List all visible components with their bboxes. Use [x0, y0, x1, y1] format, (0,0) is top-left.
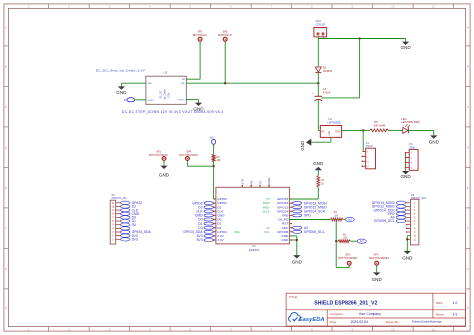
svg-text:C: C: [467, 105, 470, 109]
svg-text:TITLE:: TITLE:: [289, 295, 298, 299]
svg-text:B: B: [467, 64, 469, 68]
svg-text:SP1: SP1: [156, 149, 161, 153]
svg-text:1/1: 1/1: [453, 313, 458, 317]
svg-text:EN: EN: [182, 79, 185, 81]
svg-text:E: E: [5, 186, 7, 190]
wire D3 to C4: [317, 73, 319, 97]
svg-text:LED: LED: [401, 117, 406, 121]
svg-text:OUT: OUT: [335, 131, 341, 134]
junction SP4 branch: [212, 165, 214, 167]
ESP right net flags: [292, 202, 301, 205]
svg-text:MOSI: MOSI: [263, 201, 270, 205]
ground at P4: [402, 171, 409, 174]
junction SP6 / 12V wire: [224, 82, 226, 84]
wire SP6 drop: [224, 41, 226, 83]
svg-text:D: D: [467, 145, 470, 149]
svg-text:VIN+: VIN+: [147, 83, 153, 85]
wire ESP CH_PD to R1: [289, 219, 330, 221]
svg-text:DC_DC: DC_DC: [160, 90, 163, 99]
svg-text:SP5: SP5: [197, 29, 202, 33]
svg-text:1N4004: 1N4004: [323, 69, 333, 73]
svg-text:G: G: [467, 267, 470, 271]
svg-text:Date:: Date:: [330, 320, 337, 324]
svg-text:BUTTON LD: BUTTON LD: [218, 33, 232, 37]
wire 3v3 flag to U3 VOUT+: [135, 99, 146, 101]
svg-text:5VCC: 5VCC: [366, 144, 373, 148]
svg-text:G: G: [5, 267, 8, 271]
svg-text:GND: GND: [116, 90, 127, 95]
junction 12V wire / D3-C4 node: [317, 82, 319, 84]
svg-text:E: E: [467, 186, 469, 190]
junction CN1 gnd rail branch: [358, 37, 360, 39]
ground at CN1: [402, 42, 409, 45]
wire R1 to 3v3 flag: [343, 219, 345, 221]
wire ESP GND pins: [289, 235, 296, 237]
net flag 3v3 at R2: [357, 239, 366, 243]
wire SP4 to GPIO0 line: [186, 161, 188, 167]
junction R2 branch: [335, 240, 337, 242]
svg-text:LED 5MM RED: LED 5MM RED: [401, 120, 419, 124]
svg-text:SCL: SCL: [264, 230, 270, 234]
svg-text:9: 9: [352, 327, 354, 331]
ground at SP3: [373, 272, 380, 275]
svg-text:RobertoCarlosAlvarenga: RobertoCarlosAlvarenga: [412, 320, 442, 324]
svg-text:SCLK: SCLK: [263, 209, 270, 213]
svg-text:10: 10: [391, 327, 395, 331]
svg-text:D3: D3: [323, 65, 327, 69]
diode D3 1N4004: [315, 67, 321, 72]
svg-text:3V3: 3V3: [132, 237, 138, 241]
wire U3 VIN- net to 12V node: [186, 82, 318, 84]
svg-text:1k: 1k: [321, 182, 324, 185]
wire U3 EN to SP5: [186, 78, 200, 80]
EasyEDA logo: [289, 313, 301, 322]
wire U3 VOUT- to GND: [186, 99, 198, 101]
resistor R1 10k: [330, 218, 343, 221]
ground at U4 (rotated left): [306, 139, 311, 146]
svg-text:C: C: [5, 105, 8, 109]
svg-text:GND: GND: [372, 277, 383, 282]
svg-text:D3: D3: [132, 223, 136, 227]
svg-text:A: A: [5, 25, 7, 29]
svg-text:A0: A0: [266, 226, 270, 230]
junction ESP gnd wires: [296, 239, 298, 241]
svg-text:P4: P4: [409, 142, 413, 146]
svg-text:Sheet:: Sheet:: [436, 313, 445, 317]
wire U3 VIN- to GND left: [121, 82, 145, 84]
svg-text:CDS-2P: CDS-2P: [316, 22, 326, 26]
svg-text:GND: GND: [402, 256, 413, 261]
svg-text:H: H: [467, 306, 469, 310]
svg-text:U4: U4: [328, 117, 332, 121]
wire LED to GND: [408, 129, 433, 131]
wire CN1 pin2 to GND rail: [322, 37, 324, 39]
svg-text:CN1: CN1: [316, 19, 322, 23]
wire reset vertical: [335, 220, 337, 268]
svg-text:BUTTON PROG: BUTTON PROG: [180, 153, 199, 157]
wire U4 OUT to node: [342, 129, 370, 131]
wire R5 to LED: [389, 129, 403, 131]
ground at U3 VIN-: [118, 86, 125, 89]
svg-text:1.0: 1.0: [452, 301, 457, 305]
svg-text:GND: GND: [400, 174, 411, 179]
svg-text:GND: GND: [409, 145, 415, 149]
ground at ESP: [293, 255, 300, 258]
svg-text:5: 5: [190, 327, 192, 331]
net flag 3v3 at R1: [345, 217, 354, 221]
svg-text:7: 7: [271, 327, 273, 331]
svg-text:1: 1: [28, 327, 30, 331]
svg-text:2: 2: [68, 327, 70, 331]
wire R2 to 3v3 flag: [336, 240, 338, 242]
svg-text:2020-02-04: 2020-02-04: [351, 320, 368, 324]
svg-text:TX: TX: [258, 181, 262, 185]
svg-text:6: 6: [230, 327, 232, 331]
wire ESP GPIO15 to R7: [289, 198, 318, 200]
capacitor C4 470uF: [315, 95, 323, 97]
wire 3v3 flag to R6: [213, 144, 215, 154]
svg-text:3: 3: [109, 327, 111, 331]
svg-text:3.3V: 3.3V: [168, 93, 171, 98]
svg-text:11: 11: [432, 327, 435, 331]
svg-text:Your Company: Your Company: [359, 312, 382, 316]
wire P4 pins to ground: [405, 153, 407, 171]
ESP left net flags: [204, 202, 213, 205]
svg-text:H: H: [5, 306, 7, 310]
junction P3 gnd: [406, 238, 408, 240]
wire SP1 to ground: [163, 161, 165, 166]
ESP top pins 3.3V RX TX GND: [241, 186, 243, 187]
svg-text:VIN-: VIN-: [181, 83, 186, 85]
svg-text:EasyEDA: EasyEDA: [299, 317, 325, 323]
IC U1 ESP201 module: [216, 187, 290, 244]
svg-text:BUTTON RESET: BUTTON RESET: [370, 256, 390, 260]
svg-text:GPIO05_SCL: GPIO05_SCL: [304, 230, 325, 234]
svg-text:GND: GND: [159, 172, 170, 177]
module U3 DC-DC step-down: [146, 76, 186, 104]
svg-text:D: D: [5, 145, 8, 149]
svg-text:10: 10: [391, 5, 395, 9]
svg-text:GND: GND: [193, 106, 204, 111]
svg-text:BUTTON LD: BUTTON LD: [193, 33, 207, 37]
svg-text:GPIO05_SCL: GPIO05_SCL: [374, 219, 395, 223]
svg-text:Drawn By:: Drawn By:: [386, 320, 400, 324]
svg-text:MISO: MISO: [263, 205, 270, 209]
svg-text:SP4: SP4: [186, 149, 191, 153]
svg-text:GND: GND: [400, 45, 411, 50]
svg-text:A: A: [467, 25, 469, 29]
svg-text:8: 8: [311, 327, 313, 331]
resistor R6 10K: [212, 154, 215, 162]
svg-text:VOUT+: VOUT+: [147, 100, 155, 102]
ground at P3: [404, 251, 411, 254]
wire SP3 to ground: [376, 265, 378, 272]
svg-text:DC-DC STEP_DOWN 12V IN 3V3 VOU: DC-DC STEP_DOWN 12V IN 3V3 VOUT 600mA S0…: [122, 110, 223, 114]
svg-text:R5: R5: [374, 120, 378, 124]
svg-text:VOUT-: VOUT-: [178, 100, 185, 102]
svg-text:GND: GND: [329, 130, 331, 135]
svg-text:+: +: [312, 93, 314, 96]
svg-text:P1: P1: [366, 141, 370, 145]
wire R7 to ground: [317, 170, 319, 175]
wire R6 to ESP GPIO0: [213, 162, 215, 199]
svg-text:C4: C4: [323, 87, 327, 91]
ground above R7 (arrow up): [315, 167, 322, 170]
svg-text:4: 4: [149, 327, 151, 331]
svg-text:F: F: [467, 226, 469, 230]
svg-text:RX: RX: [249, 180, 253, 184]
svg-text:GND: GND: [300, 141, 305, 151]
ESP pin stubs: [214, 198, 216, 200]
wire CN1 pin1 down: [317, 37, 319, 67]
svg-text:GND: GND: [292, 260, 303, 265]
svg-text:3.3V: 3.3V: [217, 238, 224, 242]
ground at SP1: [160, 166, 167, 169]
svg-text:LM7805EE: LM7805EE: [327, 120, 341, 124]
svg-text:SP6: SP6: [222, 29, 227, 33]
svg-text:3.3V: 3.3V: [241, 178, 245, 184]
svg-text:10k: 10k: [334, 215, 339, 218]
svg-text:DC_DC_Step_Up_Down_3.3V: DC_DC_Step_Up_Down_3.3V: [96, 69, 146, 73]
wire C4 to U4 IN: [317, 100, 319, 130]
wire U4 GND pin: [330, 137, 332, 142]
svg-text:Up_Down: Up_Down: [164, 88, 167, 100]
svg-text:470uF: 470uF: [323, 91, 331, 95]
svg-text:U3: U3: [164, 70, 168, 74]
svg-text:BUTTON RESET: BUTTON RESET: [338, 256, 358, 260]
svg-text:IN: IN: [322, 131, 325, 134]
wire branch to C4 node: [359, 39, 361, 98]
svg-text:SDA: SDA: [234, 230, 240, 234]
resistor R2 10k: [338, 240, 350, 243]
svg-text:SHIELD ESP8266_201_V2: SHIELD ESP8266_201_V2: [314, 301, 377, 307]
svg-text:GND: GND: [429, 140, 440, 145]
resistor R7 1k: [317, 176, 320, 188]
junction U4 out / P1 branch: [362, 129, 364, 131]
svg-text:TX: TX: [266, 197, 270, 201]
ground at LED: [430, 135, 437, 138]
svg-text:ESP201: ESP201: [249, 248, 260, 252]
svg-text:REV:: REV:: [436, 301, 443, 305]
svg-text:XPD: XPD: [304, 214, 312, 218]
svg-text:GND: GND: [281, 238, 289, 242]
svg-text:10K: 10K: [217, 159, 222, 162]
svg-text:Company:: Company:: [330, 312, 344, 316]
svg-text:GND: GND: [267, 178, 271, 184]
ground at U3 VOUT-: [195, 103, 202, 106]
wire node down to P1 pin1: [362, 130, 364, 151]
svg-text:SP3: SP3: [374, 252, 379, 256]
svg-text:PINOUT_201: PINOUT_201: [112, 197, 128, 200]
svg-text:SP2: SP2: [346, 252, 351, 256]
svg-text:11: 11: [432, 5, 435, 9]
title block: [286, 293, 466, 326]
svg-text:B: B: [5, 64, 7, 68]
svg-text:500 OHM: 500 OHM: [374, 124, 386, 128]
wire P3 gnd pins: [406, 236, 408, 251]
svg-text:GND: GND: [313, 161, 324, 166]
svg-text:F: F: [5, 226, 7, 230]
svg-text:3V3: 3V3: [197, 238, 203, 242]
